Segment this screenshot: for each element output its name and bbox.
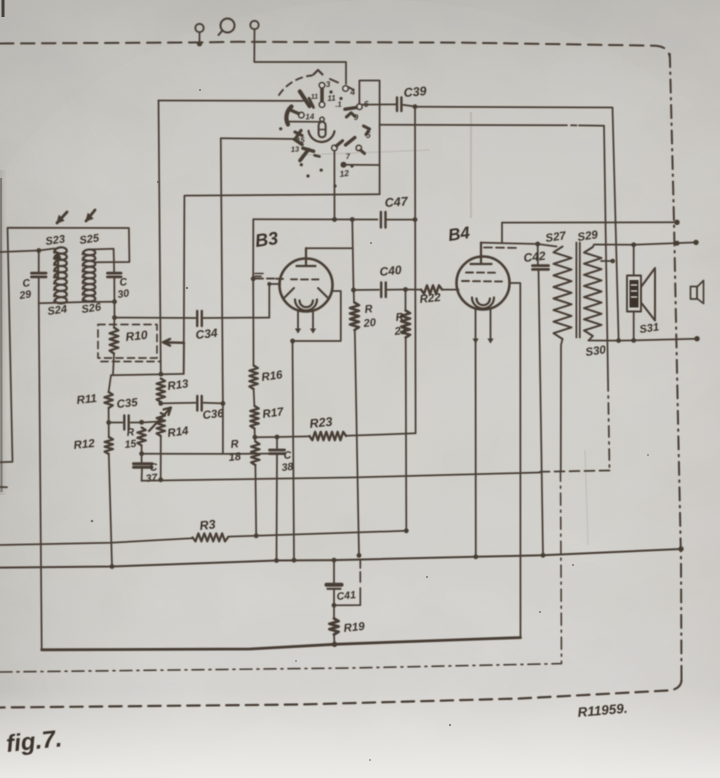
wire: S29 bottom to speaker line — [589, 336, 593, 341]
resistor R15 — [137, 428, 145, 446]
wire: R23 line — [255, 435, 310, 438]
svg-text:C34: C34 — [195, 326, 219, 342]
transformer core — [576, 243, 579, 338]
resistor R11 — [104, 392, 112, 408]
B3 grid dashes — [256, 278, 319, 281]
wire: R15 bottom junction — [141, 446, 143, 454]
wire: R11 top line — [111, 374, 184, 375]
wire: C47 line — [253, 218, 377, 220]
resistor R3 — [0, 538, 193, 545]
pot arrow of R10 — [163, 339, 184, 346]
svg-text:C39: C39 — [403, 84, 427, 100]
terminal circle 1 — [195, 24, 203, 32]
tuning arrows above coils — [57, 212, 67, 223]
B3 heater angles — [285, 288, 328, 298]
coil S23 — [54, 247, 67, 303]
capacitor C36 — [197, 396, 201, 411]
wire: pot wiper down to R11 line — [183, 343, 185, 374]
page edge shade left — [0, 178, 3, 492]
svg-text:R23: R23 — [309, 415, 333, 431]
wire: switch bottom contact down to C47 line — [333, 151, 335, 220]
resistor R12 — [105, 437, 113, 454]
wire: big loop from S25 tap around left side — [0, 228, 129, 462]
wire: R23 to x415 corner — [346, 433, 416, 436]
wire: S27 bottom down — [561, 339, 563, 471]
dashed border top — [0, 42, 670, 56]
wire: R11 top lead — [109, 375, 111, 392]
wire: contact13 to corner2 — [221, 137, 296, 140]
bottom line S23/S24 to S26 — [39, 302, 115, 304]
wire: S25 top to C30 — [89, 249, 114, 273]
dashes under top line — [484, 247, 516, 249]
left edge stub — [0, 486, 7, 488]
B3 top cap wire to x352 vertical — [306, 247, 352, 249]
svg-text:20: 20 — [362, 317, 377, 330]
B4 anode wire down to bus3 — [510, 283, 521, 638]
wire: C36 line from pot junction — [161, 402, 223, 405]
arrow inside S23 — [57, 254, 59, 277]
wire: R10 leads — [113, 318, 115, 375]
wire: C35 line — [109, 422, 161, 423]
svg-text:30: 30 — [117, 287, 130, 301]
wire: left line to S23 top — [0, 249, 55, 253]
wire: C34 line (S26 junction to B3 cathode) — [115, 317, 270, 319]
svg-text:C35: C35 — [116, 397, 139, 411]
svg-text:R12: R12 — [73, 438, 96, 452]
svg-text:R: R — [364, 303, 373, 316]
dashed shield box around R10 — [98, 325, 157, 359]
wire: S27 top — [538, 244, 557, 247]
svg-text:C42: C42 — [523, 249, 547, 265]
terminal circle 2 (with tail) — [221, 19, 235, 33]
svg-text:15: 15 — [124, 438, 137, 451]
resistor R10 (potentiometer) — [110, 328, 119, 354]
pot arrow R14 — [149, 408, 171, 432]
wire: C30 down to junction — [113, 277, 115, 318]
terminal circle 3 — [250, 21, 258, 29]
wire: R20 bottom to bus2 — [355, 330, 359, 555]
wire: vertical corner2 down to C36 corner — [221, 138, 223, 403]
capacitor C40 — [381, 283, 386, 298]
wire: x380 bottom across to corner3, down to pot line — [184, 194, 380, 374]
svg-text:R22: R22 — [419, 292, 442, 306]
photo corner mark — [2, 0, 5, 17]
transformer primary S27 — [554, 247, 572, 340]
resistor R23 — [310, 432, 347, 440]
tube B3 — [280, 259, 333, 312]
svg-text:C47: C47 — [384, 194, 409, 210]
dashed border right (dash-dot) — [670, 54, 682, 681]
wire: R22 to B4 grid — [442, 289, 459, 291]
wire: C39 to right corner, down to speaker line — [402, 105, 416, 107]
wire: S29 tap to outer line — [601, 260, 613, 262]
resistor R13 — [157, 379, 165, 403]
B3 anode plate — [297, 248, 316, 266]
svg-text:B3: B3 — [254, 228, 280, 251]
wire: speaker line — [589, 339, 698, 341]
B3 cathode arcs — [295, 300, 317, 311]
wire: R12 down to bus2 — [109, 454, 112, 567]
capacitor C47 — [381, 212, 386, 228]
rotary switch S (wafer, face view) — [279, 70, 371, 188]
external speaker icon — [691, 287, 698, 300]
wire: vertical from corner1 down to R13 chain — [159, 101, 161, 374]
wire: S23 bottom line down to ground bus3 — [39, 303, 42, 649]
wire: x415 vertical C39->C47->R23 — [414, 107, 417, 434]
wire: S29 top line to border — [593, 242, 696, 247]
resistor R17 — [250, 406, 258, 429]
wire: inner line y125 from x380 to right corner — [380, 124, 604, 127]
svg-text:11: 11 — [311, 93, 319, 100]
svg-text:C36: C36 — [202, 408, 225, 422]
speaker cone — [641, 268, 655, 321]
B3 heater leads with arrows — [298, 311, 313, 332]
svg-text:18: 18 — [228, 451, 242, 464]
tube B4 — [457, 257, 510, 310]
B4 cathode arcs — [472, 298, 494, 309]
svg-text:B4: B4 — [447, 223, 472, 245]
capacitor C35 — [124, 416, 128, 430]
resistor R21 — [405, 290, 407, 311]
transformer secondary S29 — [584, 247, 602, 336]
svg-text:C40: C40 — [379, 263, 403, 279]
resistor R19 — [333, 605, 335, 618]
speaker field coil box — [627, 276, 641, 312]
svg-text:21: 21 — [393, 325, 407, 338]
inner boundary corner to busG — [540, 471, 610, 472]
dashed border bottom — [0, 680, 682, 708]
wire: R21 bottom to bus1 end — [405, 338, 408, 531]
capacitor C39 — [397, 98, 401, 112]
wire: loop right of C41 label — [334, 560, 360, 605]
coil S25 — [83, 249, 96, 301]
wire: R18 to bus1 — [254, 465, 257, 536]
B3 cathode side lead — [269, 284, 280, 318]
capacitor C38 — [276, 437, 278, 448]
resistor R16 — [249, 366, 257, 390]
svg-text:R: R — [230, 438, 239, 451]
wire: contact12 to x380 vertical — [344, 164, 380, 166]
svg-text:13: 13 — [291, 144, 301, 154]
svg-text:R19: R19 — [343, 621, 366, 635]
wire: terminal 3 to switch contact 4 — [254, 30, 346, 85]
wire: C37 bottom to busG — [141, 467, 143, 481]
resistor R22 — [406, 289, 422, 291]
svg-text:R: R — [395, 311, 404, 324]
svg-text:R3: R3 — [199, 517, 216, 533]
B3 screen wire right side box — [293, 291, 341, 560]
svg-text:4: 4 — [349, 87, 356, 97]
svg-text:29: 29 — [18, 288, 32, 302]
wire: C38 bottom to bus2 — [276, 454, 279, 561]
svg-text:R10: R10 — [125, 328, 149, 344]
svg-text:12: 12 — [339, 168, 350, 179]
svg-text:R11: R11 — [76, 393, 97, 407]
wire: C36 corner down and right to C38 line — [142, 403, 271, 454]
B4 top cap line — [481, 223, 538, 244]
wire: R14 bottom to busG — [160, 436, 162, 480]
pot junction R13/R14 — [158, 401, 163, 406]
capacitor C42 — [537, 244, 539, 264]
wire: busG — [142, 473, 540, 481]
wire: bus3 (thick) — [42, 638, 521, 650]
wire: contact6 up over to x380 — [359, 81, 379, 195]
svg-text:14: 14 — [305, 112, 315, 122]
wire: C40 line — [354, 289, 380, 291]
B4 heater leads / cathode line — [475, 309, 477, 557]
capacitor C41 — [332, 558, 337, 563]
resistor R14 — [157, 413, 165, 436]
capacitor C30 — [108, 273, 122, 277]
B4 top cap lead + plate — [471, 243, 492, 264]
wire: B3 grid vertical chain — [252, 219, 254, 365]
wire: B4 top line to border — [502, 221, 677, 223]
wire: inner dash-dot bottom — [0, 471, 562, 673]
wire: C37 — [141, 454, 143, 462]
B4 grid dashes — [462, 273, 502, 282]
svg-text:38: 38 — [281, 461, 294, 474]
svg-text:C41: C41 — [336, 589, 357, 603]
capacitor C34 — [197, 311, 202, 326]
resistor R18 — [254, 437, 256, 441]
wire: speaker leads — [633, 245, 635, 341]
wire: bus2 — [0, 549, 681, 568]
wire: switch to C39 — [362, 103, 397, 105]
inner boundary right vertical — [604, 126, 608, 380]
wire: R11-R12 — [108, 408, 110, 437]
wire: contact14/arrow to left corner1 — [159, 100, 304, 102]
faint show-through streaks — [470, 112, 473, 218]
wire: C47 to x415 vertical — [386, 219, 416, 221]
svg-text:.1: .1 — [335, 100, 342, 109]
resistor R20 — [353, 290, 355, 303]
capacitor C29 — [32, 273, 47, 277]
wire: bus1 right part — [228, 531, 406, 537]
wire: x352 vertical — [352, 220, 353, 290]
